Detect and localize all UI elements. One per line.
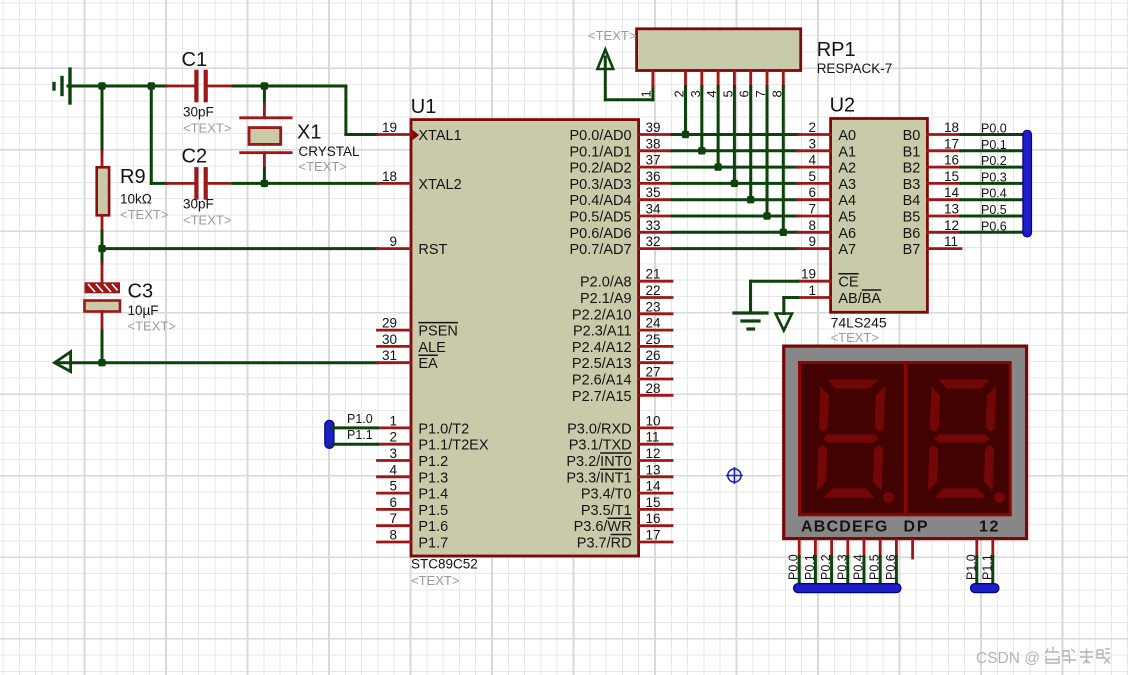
svg-text:5: 5 — [808, 169, 816, 184]
node B junction — [148, 82, 155, 89]
svg-text:5: 5 — [389, 479, 397, 494]
display segment pin P0.3 — [835, 540, 849, 588]
display segment pin P0.0 — [787, 540, 801, 588]
svg-text:15: 15 — [646, 495, 661, 510]
U1 pin 35 P0.4/AD4 — [570, 185, 672, 209]
svg-text:35: 35 — [646, 185, 661, 200]
U1 pin 24 P2.3/A11 — [573, 316, 672, 340]
svg-text:A0: A0 — [838, 128, 856, 144]
svg-text:<TEXT>: <TEXT> — [299, 159, 347, 174]
junction RP1 pin 4 — [714, 163, 721, 170]
U1 pin 12 P3.2/INT0 — [566, 446, 672, 470]
U1 pin 33 P0.6/AD6 — [570, 218, 672, 242]
digit 2 segments — [927, 379, 997, 499]
svg-text:U1: U1 — [411, 96, 437, 118]
ground — [54, 69, 70, 103]
svg-text:12: 12 — [646, 446, 661, 461]
svg-text:RESPACK-7: RESPACK-7 — [817, 61, 893, 76]
svg-text:B1: B1 — [903, 144, 921, 160]
node C junction — [261, 82, 268, 89]
svg-text:P0.7/AD7: P0.7/AD7 — [570, 242, 632, 258]
wire RP1 pin 5 to P0.3 — [733, 87, 736, 184]
ground arrow terminal — [55, 352, 71, 372]
U1 pin 6 P1.5 — [378, 495, 449, 519]
U2 pin 15 B3 — [903, 169, 961, 193]
svg-text:B4: B4 — [903, 193, 921, 209]
svg-text:18: 18 — [382, 169, 397, 184]
svg-text:2: 2 — [389, 430, 397, 445]
U1 pin 8 P1.7 — [378, 528, 449, 552]
svg-text:B0: B0 — [903, 128, 921, 144]
U2 pin 2 A0 — [798, 120, 856, 144]
svg-text:B5: B5 — [903, 210, 921, 226]
ground arrow below AB/BA — [776, 314, 792, 331]
svg-text:P0.5/AD5: P0.5/AD5 — [570, 210, 632, 226]
svg-text:<TEXT>: <TEXT> — [588, 28, 636, 43]
svg-text:C3: C3 — [128, 281, 154, 303]
U2 pin 14 B4 — [903, 185, 961, 209]
svg-text:38: 38 — [646, 136, 661, 151]
U2 pin 8 A6 — [798, 218, 856, 242]
svg-text:A1: A1 — [838, 144, 856, 160]
junction RP1 pin 3 — [698, 147, 705, 154]
U1 pin 37 P0.2/AD2 — [570, 153, 672, 177]
svg-text:P1.1: P1.1 — [347, 428, 373, 442]
wire P0.0 U1 to U2 — [672, 133, 798, 136]
wire node B to C1 — [151, 85, 167, 88]
display digit common pins P1.0 P1.1 — [964, 540, 994, 588]
svg-text:P3.2/INT0: P3.2/INT0 — [566, 454, 631, 470]
mcu U1 STC89C52 — [411, 96, 639, 588]
U2 pin 16 B2 — [903, 153, 961, 177]
wire RP1 pin 6 to P0.4 — [749, 87, 752, 200]
svg-text:7: 7 — [808, 202, 816, 217]
svg-text:P1.0/T2: P1.0/T2 — [418, 421, 469, 437]
svg-text:30pF: 30pF — [183, 104, 214, 119]
svg-text:25: 25 — [646, 332, 661, 347]
svg-text:P0.6/AD6: P0.6/AD6 — [570, 226, 632, 242]
wire B6 to P0.6 terminal — [961, 219, 1024, 233]
svg-text:RP1: RP1 — [817, 39, 856, 61]
svg-text:24: 24 — [646, 316, 662, 331]
wire node E to RST pin 9 — [102, 247, 378, 250]
wire node A to node B — [102, 85, 151, 88]
U1 pin 21 P2.0/A8 — [580, 267, 672, 291]
svg-text:P1.5: P1.5 — [418, 503, 448, 519]
svg-text:26: 26 — [646, 348, 661, 363]
svg-text:XTAL1: XTAL1 — [418, 128, 461, 144]
U1 pin 26 P2.5/A13 — [572, 348, 672, 372]
svg-text:P0.0: P0.0 — [787, 554, 801, 580]
svg-text:U2: U2 — [830, 95, 856, 117]
svg-text:B2: B2 — [903, 161, 921, 177]
U1 pin 36 P0.3/AD3 — [570, 169, 672, 193]
U2 pin 1 AB/BA — [798, 283, 882, 307]
svg-text:37: 37 — [646, 153, 661, 168]
svg-text:34: 34 — [646, 202, 662, 217]
node A junction — [98, 82, 105, 89]
wire ground arrow to EA pin 31 — [57, 361, 378, 364]
U1 pin 19 XTAL1 — [378, 120, 462, 144]
svg-text:14: 14 — [646, 479, 662, 494]
svg-text:10kΩ: 10kΩ — [120, 192, 152, 207]
svg-text:3: 3 — [808, 136, 816, 151]
svg-text:<TEXT>: <TEXT> — [128, 319, 176, 334]
svg-text:P0.6: P0.6 — [884, 554, 898, 580]
U1 pin 5 P1.4 — [378, 479, 449, 503]
U2 pin 7 A5 — [798, 202, 856, 226]
U1 pin 25 P2.4/A12 — [572, 332, 672, 356]
wire C1 to node C — [233, 85, 264, 88]
svg-text:16: 16 — [944, 153, 959, 168]
U1 pin 28 P2.7/A15 — [572, 381, 672, 405]
svg-text:14: 14 — [944, 185, 960, 200]
crystal X1 — [241, 86, 360, 183]
svg-text:8: 8 — [808, 218, 816, 233]
svg-text:P2.2/A10: P2.2/A10 — [572, 307, 632, 323]
U1 pin 22 P2.1/A9 — [580, 283, 672, 307]
svg-text:STC89C52: STC89C52 — [411, 557, 478, 572]
origin marker — [726, 467, 743, 484]
svg-text:XTAL2: XTAL2 — [418, 177, 461, 193]
wire node E down to C3 — [101, 249, 104, 264]
svg-text:3: 3 — [389, 446, 397, 461]
U1 pin 38 P0.1/AD1 — [570, 136, 672, 160]
svg-text:23: 23 — [646, 299, 661, 314]
svg-text:P3.4/T0: P3.4/T0 — [581, 487, 632, 503]
wire gnd to node A — [68, 85, 102, 88]
U1 pin 4 P1.3 — [378, 462, 449, 486]
svg-text:6: 6 — [389, 495, 397, 510]
U1 pin 2 P1.1/T2EX — [378, 430, 489, 454]
svg-text:30pF: 30pF — [183, 197, 214, 212]
svg-text:19: 19 — [801, 267, 816, 282]
svg-text:11: 11 — [944, 234, 958, 249]
junction RP1 pin 8 — [780, 229, 787, 236]
svg-text:PSEN: PSEN — [418, 324, 458, 340]
svg-text:P2.6/A14: P2.6/A14 — [572, 373, 632, 389]
U1 pin 9 RST — [378, 234, 448, 258]
wire P0.6 U1 to U2 — [672, 231, 798, 234]
svg-text:<TEXT>: <TEXT> — [183, 120, 231, 135]
U1 pin 14 P3.4/T0 — [581, 479, 672, 503]
svg-text:B7: B7 — [903, 242, 921, 258]
svg-text:13: 13 — [646, 462, 661, 477]
wire CE to ground — [751, 281, 798, 313]
U2 pin 13 B5 — [903, 202, 961, 226]
display segment pin P0.6 — [884, 540, 898, 588]
svg-text:P0.1/AD1: P0.1/AD1 — [570, 144, 632, 160]
RP1 pin 8 — [769, 71, 784, 98]
capacitor C3 — [85, 264, 176, 334]
display segment pin P0.4 — [852, 540, 866, 588]
svg-text:7: 7 — [389, 511, 397, 526]
svg-text:A6: A6 — [838, 226, 856, 242]
svg-text:22: 22 — [646, 283, 661, 298]
RP1 pin 7 — [753, 71, 768, 98]
svg-text:P1.0: P1.0 — [964, 554, 978, 580]
bus terminal right of U2 — [1023, 130, 1032, 237]
svg-text:P2.3/A11: P2.3/A11 — [573, 324, 632, 340]
wire P0.2 U1 to U2 — [672, 166, 798, 169]
wire B5 to P0.5 terminal — [961, 203, 1024, 217]
svg-text:P1.1/T2EX: P1.1/T2EX — [418, 438, 488, 454]
svg-text:16: 16 — [646, 511, 661, 526]
RP1 pin 5 — [720, 71, 735, 98]
junction RP1 pin 6 — [747, 196, 754, 203]
7-segment display body — [784, 346, 1027, 538]
buffer U2 74LS245 — [830, 95, 928, 345]
svg-text:C1: C1 — [182, 49, 208, 71]
svg-text:4: 4 — [808, 153, 816, 168]
svg-text:9: 9 — [808, 234, 816, 249]
svg-text:X1: X1 — [297, 121, 321, 143]
svg-text:P0.5: P0.5 — [981, 203, 1007, 217]
svg-text:1: 1 — [389, 413, 397, 428]
svg-text:EA: EA — [418, 356, 438, 372]
junction RP1 pin 2 — [682, 131, 689, 138]
display segment pin P0.2 — [819, 540, 833, 588]
svg-text:1: 1 — [639, 90, 654, 97]
wire B4 to P0.4 terminal — [961, 187, 1024, 201]
svg-text:<TEXT>: <TEXT> — [411, 573, 459, 588]
U2 pin 3 A1 — [798, 136, 856, 160]
svg-text:P2.0/A8: P2.0/A8 — [580, 275, 632, 291]
svg-text:P1.1: P1.1 — [980, 554, 994, 580]
svg-text:36: 36 — [646, 169, 661, 184]
svg-text:R9: R9 — [120, 166, 146, 188]
svg-text:P3.0/RXD: P3.0/RXD — [567, 421, 631, 437]
svg-text:<TEXT>: <TEXT> — [183, 213, 231, 228]
wire AB/BA to ground arrow — [784, 298, 798, 314]
U1 pin 1 P1.0/T2 — [378, 413, 470, 437]
svg-text:31: 31 — [382, 348, 397, 363]
svg-text:10µF: 10µF — [128, 303, 159, 318]
ground symbol near U2 — [734, 313, 767, 329]
wire C3 to node F — [101, 331, 104, 363]
svg-text:P3.1/TXD: P3.1/TXD — [569, 438, 632, 454]
resistor pack RP1 RESPACK-7 — [588, 28, 892, 76]
resistor R9 — [97, 152, 169, 232]
svg-text:P1.2: P1.2 — [418, 454, 448, 470]
svg-text:P1.3: P1.3 — [418, 470, 448, 486]
U2 pin 9 A7 — [798, 234, 856, 258]
svg-text:P0.0: P0.0 — [981, 122, 1007, 136]
wire node B down to C2 — [151, 86, 167, 183]
U1 pin 29 PSEN — [378, 316, 459, 340]
U2 pin 11 B7 — [903, 234, 961, 258]
power symbol VCC arrow — [597, 50, 613, 100]
watermark — [976, 647, 1110, 668]
wire RP1 pin 2 to P0.0 — [684, 87, 687, 135]
wire VCC to RP1 pin 1 — [605, 87, 653, 100]
svg-text:<TEXT>: <TEXT> — [831, 330, 879, 345]
svg-text:RST: RST — [418, 242, 447, 258]
svg-text:<TEXT>: <TEXT> — [120, 207, 168, 222]
wire RP1 pin 4 to P0.2 — [717, 87, 720, 168]
svg-text:A7: A7 — [838, 242, 856, 258]
terminal bar below display right — [971, 584, 1000, 593]
U1 pin 11 P3.1/TXD — [569, 430, 672, 454]
svg-text:P3.3/INT1: P3.3/INT1 — [566, 470, 631, 486]
wire RP1 pin 7 to P0.5 — [766, 87, 769, 217]
svg-text:74LS245: 74LS245 — [831, 314, 887, 330]
digit 2 decimal point — [994, 492, 1005, 503]
wire B3 to P0.3 terminal — [961, 170, 1024, 184]
RP1 pin 4 — [704, 71, 719, 98]
svg-text:C2: C2 — [182, 146, 208, 168]
svg-text:P0.6: P0.6 — [981, 219, 1007, 233]
node E junction — [98, 245, 105, 252]
svg-text:AB/BA: AB/BA — [838, 291, 881, 307]
svg-text:28: 28 — [646, 381, 661, 396]
junction RP1 pin 5 — [731, 180, 738, 187]
U1 pin 17 P3.7/RD — [577, 528, 672, 552]
svg-text:30: 30 — [382, 332, 397, 347]
svg-text:P0.5: P0.5 — [868, 554, 882, 580]
U1 pin 34 P0.5/AD5 — [570, 202, 672, 226]
svg-text:8: 8 — [389, 528, 397, 543]
digit 1 segments — [816, 379, 886, 499]
svg-text:P3.7/RD: P3.7/RD — [577, 536, 632, 552]
svg-text:ABCDEFG: ABCDEFG — [801, 519, 889, 536]
svg-text:P0.2/AD2: P0.2/AD2 — [570, 161, 632, 177]
svg-text:P0.4: P0.4 — [981, 187, 1007, 201]
display DP pin stub — [911, 540, 914, 558]
U2 pin 18 B0 — [903, 120, 961, 144]
svg-text:P2.1/A9: P2.1/A9 — [580, 291, 632, 307]
svg-text:A2: A2 — [838, 161, 856, 177]
svg-text:P2.7/A15: P2.7/A15 — [572, 389, 632, 405]
U2 pin 19 CE — [798, 267, 859, 291]
wire R9 to node E — [101, 231, 104, 249]
svg-text:P0.2: P0.2 — [819, 554, 833, 580]
svg-text:B3: B3 — [903, 177, 921, 193]
svg-text:P1.0: P1.0 — [347, 412, 373, 426]
wire RP1 pin 8 to P0.6 — [782, 87, 785, 233]
node D junction — [261, 180, 268, 187]
U2 pin 4 A2 — [798, 153, 856, 177]
svg-text:12: 12 — [944, 218, 959, 233]
svg-text:B6: B6 — [903, 226, 921, 242]
svg-text:4: 4 — [389, 462, 397, 477]
wire P0.3 U1 to U2 — [672, 182, 798, 185]
U1 pin 18 XTAL2 — [378, 169, 462, 193]
svg-text:P3.5/T1: P3.5/T1 — [581, 503, 632, 519]
U1 pin 3 P1.2 — [378, 446, 449, 470]
svg-text:27: 27 — [646, 365, 661, 380]
svg-text:CE: CE — [838, 275, 858, 291]
display pin letters — [801, 519, 999, 536]
svg-text:P2.5/A13: P2.5/A13 — [572, 356, 632, 372]
wire P0.4 U1 to U2 — [672, 198, 798, 201]
display segment pin P0.5 — [868, 540, 882, 588]
svg-text:ALE: ALE — [418, 340, 446, 356]
wire B1 to P0.1 terminal — [961, 138, 1024, 152]
svg-text:P0.1: P0.1 — [803, 554, 817, 580]
U1 pin 23 P2.2/A10 — [572, 299, 672, 323]
svg-text:9: 9 — [389, 234, 397, 249]
svg-text:18: 18 — [944, 120, 959, 135]
svg-text:P1.6: P1.6 — [418, 519, 448, 535]
display segment pin P0.1 — [803, 540, 817, 588]
U1 pin 32 P0.7/AD7 — [570, 234, 672, 258]
svg-text:DP: DP — [904, 519, 930, 536]
svg-text:P0.3: P0.3 — [835, 554, 849, 580]
svg-text:19: 19 — [382, 120, 397, 135]
svg-text:33: 33 — [646, 218, 661, 233]
wire C2 to node D — [233, 182, 264, 185]
wire terminal to P1.0 — [331, 412, 378, 428]
RP1 pin 6 — [737, 71, 752, 98]
wire node D to XTAL2 pin 18 — [264, 182, 377, 185]
svg-text:29: 29 — [382, 316, 397, 331]
U1 pin 39 P0.0/AD0 — [570, 120, 672, 144]
svg-text:17: 17 — [646, 528, 661, 543]
node F junction — [98, 359, 105, 366]
svg-text:P3.6/WR: P3.6/WR — [574, 519, 632, 535]
svg-text:CSDN @: CSDN @ — [976, 650, 1040, 667]
wire P0.5 U1 to U2 — [672, 215, 798, 218]
svg-text:P1.7: P1.7 — [418, 536, 448, 552]
svg-text:P0.3/AD3: P0.3/AD3 — [570, 177, 632, 193]
svg-text:15: 15 — [944, 169, 959, 184]
U2 pin 6 A4 — [798, 185, 856, 209]
svg-text:P1.4: P1.4 — [418, 487, 448, 503]
U1 pin 7 P1.6 — [378, 511, 449, 535]
svg-text:1: 1 — [979, 519, 988, 536]
U2 pin 12 B6 — [903, 218, 961, 242]
svg-text:P0.3: P0.3 — [981, 170, 1007, 184]
svg-text:10: 10 — [646, 413, 661, 428]
wire P0.1 U1 to U2 — [672, 149, 798, 152]
svg-text:A4: A4 — [838, 193, 856, 209]
U1 pin 30 ALE — [378, 332, 447, 356]
svg-text:17: 17 — [944, 136, 959, 151]
wire RP1 pin 3 to P0.1 — [700, 87, 703, 151]
digit 1 decimal point — [883, 492, 894, 503]
U1 pin 13 P3.3/INT1 — [566, 462, 672, 486]
terminal P1.0 P1.1 — [325, 420, 334, 448]
U1 pin 10 P3.0/RXD — [567, 413, 672, 437]
svg-text:P0.2: P0.2 — [981, 154, 1007, 168]
terminal bar below display left — [794, 584, 902, 593]
svg-text:A3: A3 — [838, 177, 856, 193]
svg-text:21: 21 — [646, 267, 661, 282]
U1 pin 31 EA — [378, 348, 439, 372]
svg-text:2: 2 — [808, 120, 816, 135]
svg-text:6: 6 — [808, 185, 816, 200]
wire terminal to P1.1 — [331, 428, 378, 444]
U1 pin 27 P2.6/A14 — [572, 365, 672, 389]
svg-text:2: 2 — [990, 519, 999, 536]
svg-text:1: 1 — [808, 283, 816, 298]
wire P0.7 U1 to U2 — [672, 247, 798, 250]
svg-text:13: 13 — [944, 202, 959, 217]
svg-text:11: 11 — [646, 430, 660, 445]
RP1 pin 1 — [639, 71, 654, 98]
svg-text:CRYSTAL: CRYSTAL — [299, 144, 361, 159]
capacitor C1 — [167, 49, 233, 135]
U2 pin 5 A3 — [798, 169, 856, 193]
svg-text:32: 32 — [646, 234, 661, 249]
svg-text:P2.4/A12: P2.4/A12 — [572, 340, 632, 356]
RP1 pin 3 — [688, 71, 703, 98]
wire B0 to P0.0 terminal — [961, 122, 1024, 136]
wire B2 to P0.2 terminal — [961, 154, 1024, 168]
capacitor C2 — [167, 146, 233, 228]
RP1 pin 2 — [672, 71, 687, 98]
